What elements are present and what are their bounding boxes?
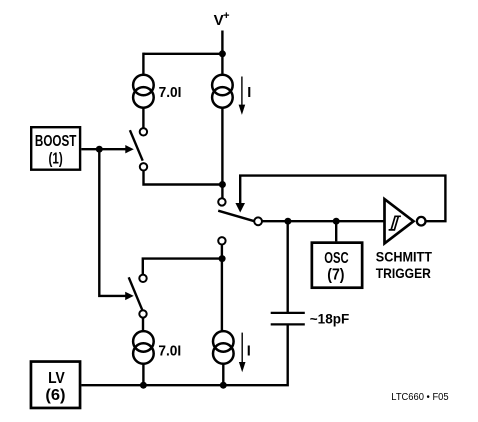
svg-text:BOOST: BOOST [35,133,77,150]
block OSC pin 7 [312,243,362,288]
switch S2 (lower left) [129,275,147,318]
current direction arrow (top) [239,77,246,115]
wire lower rail to switch S2 [143,259,222,275]
wire right branch vertical [221,108,223,199]
svg-text:(6): (6) [45,387,65,404]
wire bottom 7.0I to bottom rail [142,364,144,385]
feedback arrowhead onto switch [235,203,245,213]
node capacitor junction [284,218,291,225]
svg-text:I: I [247,85,251,101]
node OSC junction [333,218,340,225]
current source I (top right) [212,75,233,108]
block LV pin 6 [31,362,80,408]
svg-text:I: I [247,343,251,359]
label SCHMITT TRIGGER [376,249,433,282]
svg-text:(1): (1) [49,150,63,167]
svg-text:+: + [223,10,229,22]
wire S2 bottom to 7.0I source [142,318,144,331]
node bottom rail right junction [220,382,227,389]
svg-text:LV: LV [48,370,65,387]
op-amp U1 schmitt trigger inverter [385,199,426,243]
node lower rail junction [219,255,226,262]
switch S1 (upper left) [130,128,147,170]
node bottom rail left junction [140,382,147,389]
wire BOOST output with arrow [81,145,134,153]
current source 7.0I (top left) [133,75,154,108]
svg-text:(7): (7) [327,267,344,284]
wire feedback from schmitt output [240,176,445,222]
current source I (bottom right) [213,331,234,364]
wire 7.0I source to switch S1 [142,108,144,129]
svg-text:TRIGGER: TRIGGER [376,265,431,281]
wire left drop to 7.0I source [142,53,144,75]
wire bottom rail from LV to capacitor [81,324,287,385]
wire S3 lower contact down to bottom I source [221,245,223,331]
wire OSC stem [335,221,337,241]
node mid rail junction [219,181,226,188]
svg-text:SCHMITT: SCHMITT [376,249,433,265]
node V+ junction [219,50,226,57]
wire output node row [262,220,385,222]
block BOOST pin 1 [31,127,80,170]
svg-text:~18pF: ~18pF [310,311,350,327]
power label V+ [214,10,230,29]
svg-text:7.0I: 7.0I [159,85,182,101]
current direction arrow (bottom) [239,333,246,373]
svg-text:LTC660 • F05: LTC660 • F05 [391,392,449,403]
svg-text:OSC: OSC [324,250,349,267]
svg-text:7.0I: 7.0I [158,343,181,359]
wire BOOST control to switch S2 with arrow [99,149,133,300]
wire bottom I to bottom rail [222,364,224,385]
switch S3 changeover [218,198,262,244]
node BOOST control junction [96,146,103,153]
wire S1 bottom to mid rail [144,171,223,185]
wire top horizontal [143,53,222,55]
current source 7.0I (bottom left) [133,331,154,364]
wire V+ stem [221,31,223,75]
capacitor C ~18pF [271,221,305,324]
